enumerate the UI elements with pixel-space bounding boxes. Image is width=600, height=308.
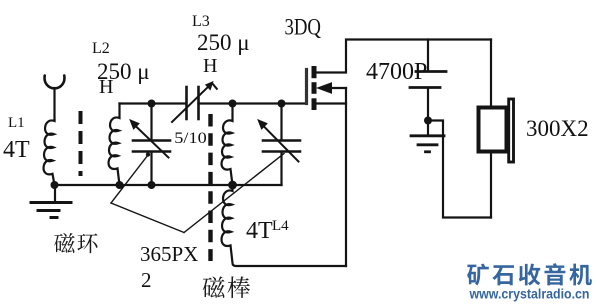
svg-text:5/10: 5/10 (174, 130, 207, 147)
variable capacitor C1a riser (150, 104, 152, 140)
variable capacitor C1a arrow (130, 120, 169, 158)
node: L2 / bottom rail junction (116, 181, 124, 189)
label cibang (203, 276, 250, 298)
trimmer capacitor 5/10 plates (185, 87, 188, 119)
antenna (45, 76, 65, 121)
wire: cap to speaker branch (428, 121, 491, 218)
trimmer capacitor 5/10 arrow (172, 82, 217, 122)
wire: source down to L4 (345, 88, 347, 266)
svg-text:H: H (203, 55, 217, 77)
node: top rail / L3 junction (229, 100, 237, 108)
svg-text:4700P: 4700P (366, 59, 427, 85)
node: 4700P / ground / speaker junction (424, 117, 432, 125)
wire: speaker feed top (490, 40, 492, 107)
ferrite rod dashed line (208, 114, 212, 261)
svg-text:L1: L1 (8, 115, 25, 131)
wire: bottom rail (55, 184, 282, 186)
capacitor 4700P lead (427, 40, 429, 71)
wire: source (316, 102, 346, 104)
svg-text:3DQ: 3DQ (285, 15, 322, 40)
watermark kuangshi shouyinji (467, 263, 592, 285)
inductor L4 (222, 185, 346, 266)
svg-text:250 μ: 250 μ (197, 30, 250, 55)
label cihuan (54, 233, 97, 253)
node: L1 / bottom rail junction (51, 181, 59, 189)
ground (left) (31, 185, 71, 218)
transistor Q1 body bar (312, 82, 317, 94)
transistor Q1 source bar (312, 98, 317, 110)
variable capacitor C1b riser (280, 104, 282, 140)
svg-text:H: H (99, 76, 113, 98)
node: L3-L4 tap junction (228, 181, 237, 190)
gang pointer line A (111, 155, 148, 203)
gang pointer line B (111, 203, 184, 233)
svg-text:L4: L4 (272, 218, 289, 234)
transistor Q1 body arrow (318, 83, 347, 93)
node: top rail / C1b junction (278, 100, 286, 108)
wire: top rail right (199, 102, 307, 104)
inductor L3 (222, 104, 233, 186)
wire: speaker return bottom (490, 153, 492, 218)
inductor L1 (44, 120, 55, 185)
gang pointer line C (184, 154, 284, 233)
node: C1a rotor contact dot (146, 152, 150, 156)
svg-text:2: 2 (141, 268, 152, 292)
svg-text:365PX: 365PX (140, 242, 198, 266)
speaker LS1 (479, 99, 514, 162)
variable capacitor C1b arrow (258, 120, 299, 162)
ferrite ring dashed line (79, 111, 83, 176)
svg-text:www.crystalradio.cn: www.crystalradio.cn (469, 287, 590, 302)
wire: drain to top rail (316, 40, 491, 73)
svg-text:L3: L3 (192, 13, 210, 30)
inductor L2 (109, 104, 120, 186)
svg-text:L2: L2 (92, 40, 110, 57)
variable capacitor C1a plates (133, 139, 170, 142)
node: C1a / bottom rail junction (148, 181, 156, 189)
svg-text:300X2: 300X2 (526, 116, 589, 141)
svg-text:4T: 4T (3, 137, 30, 163)
node: top rail / C1a junction (148, 100, 156, 108)
wire: top rail left (120, 102, 187, 104)
transistor Q1 drain bar (312, 66, 317, 78)
capacitor 4700P plates (416, 70, 446, 73)
transistor Q1 gate bar (305, 70, 308, 104)
ground (right) (411, 121, 444, 152)
variable capacitor C1b plates (263, 139, 300, 142)
svg-text:4T: 4T (246, 218, 273, 244)
